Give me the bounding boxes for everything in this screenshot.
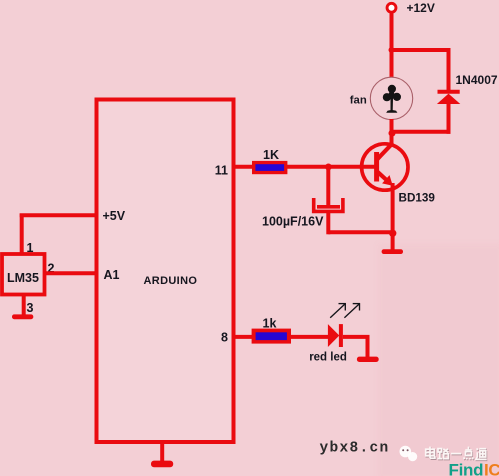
- svg-text:Find: Find: [449, 461, 484, 476]
- 电: [426, 448, 435, 460]
- 一: [452, 454, 462, 456]
- wire LM35 pin2 to A1: [45, 271, 97, 275]
- svg-text:fan: fan: [350, 95, 367, 107]
- 电: [426, 447, 435, 459]
- wire +5V rail: [20, 213, 97, 217]
- ground (arduino): [151, 461, 173, 468]
- wire LM35 pin3 down: [22, 295, 26, 316]
- node junction emitter/cap return: [389, 230, 396, 237]
- LED arrow 2: [344, 303, 360, 318]
- logo wechat bubbles: [400, 446, 418, 462]
- wire resistor to LED: [290, 335, 329, 339]
- text FindIC logo: [449, 461, 499, 476]
- svg-text:1k: 1k: [263, 317, 277, 331]
- svg-text:1K: 1K: [263, 148, 279, 162]
- wire resistor to base: [287, 165, 377, 169]
- wire +12V junction down to fan: [390, 50, 394, 78]
- svg-text:BD139: BD139: [399, 192, 436, 205]
- node +12V terminal: [387, 1, 435, 15]
- ground (led): [357, 357, 379, 362]
- text 电路一点通 watermark (drawn strokes): [426, 447, 488, 461]
- resistor R1 1K: [252, 148, 287, 174]
- diode D1 1N4007: [437, 73, 498, 104]
- wire LM35 pin1 up: [20, 214, 24, 255]
- wire diode bottom to fan bottom junction: [392, 130, 451, 134]
- LM35 U2: [2, 254, 45, 295]
- wire diode branch down to cathode: [447, 48, 451, 91]
- fan M1: [350, 77, 413, 119]
- ground (emitter): [382, 249, 403, 254]
- transistor Q1 BD139: [362, 143, 436, 205]
- resistor R2 1k: [252, 317, 291, 344]
- svg-text:+12V: +12V: [407, 1, 435, 15]
- 点: [464, 448, 474, 461]
- wire from +12V down to junction: [390, 14, 394, 51]
- 路: [437, 449, 448, 459]
- 一: [451, 453, 461, 455]
- svg-text:+5V: +5V: [103, 209, 126, 223]
- wire capacitor return to emitter: [328, 230, 392, 234]
- LED D2 red led: [309, 324, 347, 363]
- svg-text:IC: IC: [484, 461, 499, 476]
- wire junction to diode branch (top): [392, 48, 449, 52]
- svg-text:3: 3: [27, 301, 34, 315]
- svg-text:11: 11: [215, 164, 228, 178]
- svg-text:ARDUINO: ARDUINO: [144, 275, 198, 287]
- wire pin 11 to resistor: [234, 165, 254, 169]
- svg-text:ybx8.cn: ybx8.cn: [320, 441, 390, 457]
- wire junction down to capacitor: [326, 167, 330, 206]
- wire LED to ground: [343, 335, 370, 339]
- wire emitter down to ground: [391, 183, 395, 250]
- node junction base/cap: [325, 164, 332, 171]
- wire capacitor bottom lead: [326, 211, 330, 234]
- wire LED ground drop: [366, 337, 370, 358]
- ground (LM35): [12, 314, 33, 319]
- 通: [477, 449, 488, 460]
- svg-text:100µF/16V: 100µF/16V: [262, 215, 324, 229]
- svg-text:1N4007: 1N4007: [456, 73, 498, 87]
- 点: [464, 447, 474, 460]
- node junction at +12V rail: [389, 47, 395, 53]
- 路: [438, 450, 449, 460]
- svg-text:A1: A1: [104, 268, 120, 282]
- wire fan bottom to collector: [390, 119, 394, 146]
- LED arrow 1: [330, 303, 346, 318]
- svg-text:8: 8: [221, 331, 228, 345]
- wire pin 8 to resistor: [234, 335, 255, 339]
- svg-text:red led: red led: [309, 352, 347, 364]
- wire arduino ground stub: [160, 442, 164, 462]
- IC U1 ARDUINO: [97, 100, 234, 443]
- wire diode anode down: [447, 104, 451, 134]
- 通: [476, 448, 487, 459]
- capacitor C1 100uF/16V: [262, 198, 343, 229]
- svg-text:1: 1: [27, 241, 34, 255]
- node junction fan/diode/collector: [389, 130, 396, 137]
- svg-text:LM35: LM35: [7, 271, 39, 285]
